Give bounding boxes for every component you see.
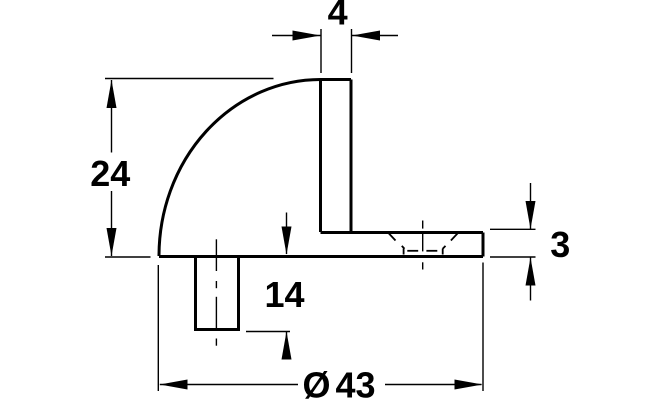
- svg-text:Ø: Ø: [302, 365, 330, 400]
- svg-text:24: 24: [90, 153, 130, 194]
- svg-text:43: 43: [335, 365, 375, 400]
- svg-text:4: 4: [328, 0, 348, 33]
- svg-text:14: 14: [264, 274, 304, 315]
- svg-text:3: 3: [550, 224, 570, 265]
